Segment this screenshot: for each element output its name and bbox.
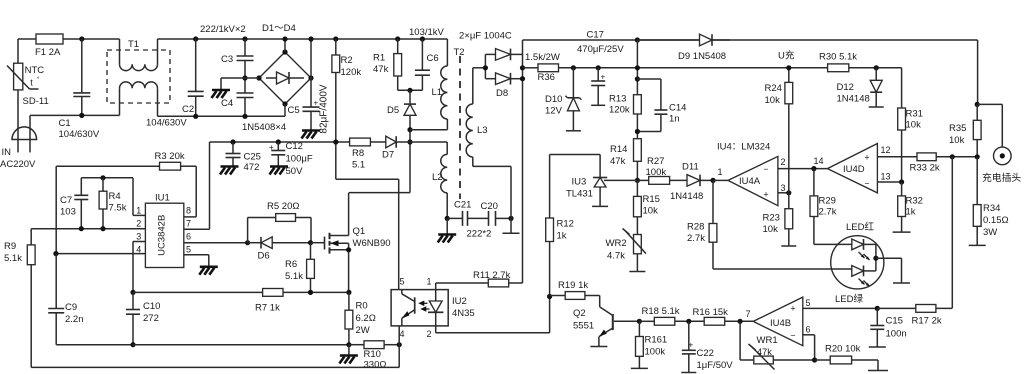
wire bottom rail after T1 — [158, 115, 286, 117]
resistor R7 1k — [255, 289, 283, 314]
wire ground bus — [133, 344, 349, 346]
node C6 top — [420, 36, 425, 41]
svg-text:WR1: WR1 — [757, 335, 778, 346]
svg-text:R29: R29 — [819, 196, 836, 207]
terminal bar C20 node — [503, 232, 520, 234]
svg-text:2.7k: 2.7k — [687, 233, 705, 244]
svg-text:R34: R34 — [983, 203, 1000, 214]
resistor R30 5.1k — [819, 52, 902, 72]
node C20 right — [508, 166, 513, 233]
svg-text:−: − — [865, 179, 870, 189]
svg-text:1k: 1k — [557, 231, 567, 242]
terminal bar R32 — [893, 231, 911, 233]
svg-text:+: + — [689, 341, 694, 350]
node R2 aux rail junction — [333, 139, 338, 144]
charge plug socket — [982, 147, 1021, 184]
resistor R20 10k — [815, 344, 878, 371]
resistor R19 1k — [550, 280, 600, 299]
node top rail plug branch — [975, 102, 980, 107]
node output R36 tap — [520, 65, 525, 70]
wire IU4B pin6 — [803, 335, 815, 360]
diode D8 — [485, 73, 522, 99]
svg-text:C2: C2 — [182, 104, 194, 115]
svg-text:R27: R27 — [647, 156, 664, 167]
node R35 bottom — [975, 154, 980, 159]
capacitor C17 470uF/25V — [577, 30, 624, 106]
svg-text:7: 7 — [746, 309, 751, 319]
svg-text:14: 14 — [814, 156, 824, 166]
svg-text:R30 5.1k: R30 5.1k — [819, 52, 857, 63]
wire U-charge rail — [559, 67, 828, 69]
MOSFET Q1 W6NB90 — [325, 193, 391, 293]
svg-text:5: 5 — [806, 298, 811, 308]
resistor R35 10k — [949, 104, 981, 156]
svg-text:103: 103 — [60, 207, 76, 218]
node R1 top — [395, 36, 400, 41]
resistor R8 5.1 — [350, 138, 386, 170]
wire IU4A noninverting pin3 — [778, 192, 789, 194]
resistor R11 2.7k — [436, 270, 523, 290]
svg-text:C15: C15 — [886, 316, 903, 327]
svg-text:L3: L3 — [477, 125, 488, 136]
svg-text:IU4A: IU4A — [739, 176, 761, 187]
svg-text:2×μF 1004C: 2×μF 1004C — [459, 31, 512, 42]
svg-text:R35: R35 — [949, 123, 966, 134]
capacitor C4 — [221, 78, 254, 116]
svg-text:120k: 120k — [609, 105, 630, 116]
svg-text:6: 6 — [186, 232, 191, 242]
svg-text:5551: 5551 — [573, 321, 594, 332]
svg-text:WR2: WR2 — [606, 238, 627, 249]
wire source bus — [133, 291, 349, 293]
wire output rail vertical — [522, 40, 524, 283]
plug IN AC220V — [0, 115, 37, 170]
svg-text:1.5k/2W: 1.5k/2W — [525, 52, 560, 63]
resistor R5 20ohm — [248, 201, 311, 243]
svg-text:3: 3 — [136, 232, 141, 242]
svg-text:10k: 10k — [949, 135, 965, 146]
svg-text:R7 1k: R7 1k — [255, 303, 280, 314]
op-amp IU4A — [713, 142, 786, 206]
svg-text:222/1kV×2: 222/1kV×2 — [200, 24, 246, 35]
svg-text:+: + — [269, 143, 274, 152]
resistor R16 15k — [693, 307, 754, 325]
svg-text:C17: C17 — [587, 30, 604, 41]
svg-text:UC3842B: UC3842B — [157, 215, 168, 256]
wire pin2 FB — [31, 229, 145, 245]
svg-text:R6: R6 — [285, 259, 297, 270]
svg-text:L2: L2 — [432, 172, 443, 183]
node bridge bottom — [282, 101, 287, 116]
svg-text:R19 1k: R19 1k — [558, 280, 588, 291]
wire gate — [311, 242, 325, 244]
svg-text:+: + — [601, 73, 606, 82]
svg-text:D7: D7 — [382, 150, 394, 161]
svg-text:R24: R24 — [765, 83, 782, 94]
wire D8 anode join — [484, 54, 486, 78]
node C2 top — [193, 36, 198, 41]
label 2x uF 1004C — [459, 31, 512, 42]
capacitor C7 103 — [60, 195, 88, 229]
terminal bar R23 — [781, 245, 796, 247]
svg-text:104/630V: 104/630V — [59, 129, 100, 140]
node R10 right — [397, 342, 402, 347]
node IU4A output — [710, 178, 715, 183]
svg-text:充电插头: 充电插头 — [982, 171, 1021, 184]
svg-text:T2: T2 — [454, 47, 465, 58]
wire pin6 gate drive — [184, 242, 248, 244]
svg-text:C21: C21 — [454, 200, 471, 211]
terminal bar C22 — [681, 372, 696, 374]
svg-text:F1 2A: F1 2A — [35, 47, 61, 58]
fuse F1 2A — [35, 34, 63, 58]
resistor R161 100k — [636, 321, 668, 368]
node IU4B pin7 — [738, 319, 743, 360]
capacitor C1 104/630V — [59, 39, 100, 140]
resistor R15 10k — [634, 180, 660, 234]
svg-text:LED绿: LED绿 — [835, 293, 863, 305]
capacitor C2 104/630V — [146, 39, 204, 129]
op-amp IU4D — [814, 144, 891, 193]
node C5 rail — [308, 36, 313, 41]
svg-text:R28: R28 — [687, 222, 704, 233]
svg-text:472: 472 — [244, 162, 260, 173]
op-amp IU4B — [746, 297, 811, 346]
node R6 bottom — [308, 290, 313, 295]
capacitor C14 1n — [637, 79, 686, 132]
svg-text:D8: D8 — [496, 88, 508, 99]
svg-text:D9 1N5408: D9 1N5408 — [678, 51, 726, 62]
wire IU4D pin12 — [877, 156, 917, 158]
wire pin1 comp — [133, 178, 145, 216]
svg-text:7.5k: 7.5k — [109, 203, 127, 214]
node secondary rail C17 — [635, 37, 640, 42]
wire R2 to opto collector — [336, 179, 399, 289]
svg-text:R18 5.1k: R18 5.1k — [642, 306, 680, 317]
diode D9 1N5408 — [637, 34, 730, 62]
capacitor C20 — [467, 201, 512, 240]
inductor L2 aux winding — [410, 142, 447, 218]
svg-text:1: 1 — [136, 206, 141, 216]
wire pin5 ground — [184, 255, 209, 266]
wire plug branch — [977, 104, 1002, 147]
svg-text:330Ω: 330Ω — [364, 360, 387, 371]
wire mid divider to ground — [221, 78, 245, 90]
svg-text:6: 6 — [806, 325, 811, 335]
wire IU4B pin5 — [803, 307, 878, 309]
svg-text:C6: C6 — [427, 53, 439, 64]
svg-text:100k: 100k — [645, 347, 666, 358]
node C12 top — [276, 139, 281, 144]
terminal bar C17 — [591, 104, 605, 106]
svg-text:1N5408×4: 1N5408×4 — [242, 122, 286, 133]
svg-text:1N4148: 1N4148 — [670, 191, 703, 202]
svg-text:5.1k: 5.1k — [285, 271, 303, 282]
svg-text:R32: R32 — [906, 196, 923, 207]
node WR1 R20 junction — [812, 357, 817, 362]
svg-text:C12: C12 — [286, 141, 303, 152]
wire pin4 RtCt — [56, 253, 145, 255]
node U-charge — [778, 50, 795, 71]
svg-text:R161: R161 — [645, 335, 668, 346]
node pin13 junction — [899, 179, 904, 184]
svg-text:IU1: IU1 — [155, 193, 170, 204]
wire NTC to plug — [17, 90, 19, 152]
potentiometer WR2 4.7k — [606, 229, 647, 272]
node C4 bottom — [242, 114, 247, 119]
svg-text:D5: D5 — [387, 105, 399, 116]
node bridge left — [245, 75, 262, 80]
svg-text:2: 2 — [136, 219, 141, 229]
svg-text:272: 272 — [143, 313, 159, 324]
svg-text:IU3: IU3 — [572, 177, 587, 188]
node C3 top — [242, 36, 247, 41]
svg-text:R15: R15 — [643, 194, 660, 205]
svg-text:C25: C25 — [244, 152, 261, 163]
node C1 top — [79, 36, 84, 41]
diode D11 1N4148 — [670, 162, 713, 203]
svg-text:R2: R2 — [341, 55, 353, 66]
node C3 C4 mid — [242, 75, 247, 80]
svg-text:1n: 1n — [669, 114, 680, 125]
svg-text:12V: 12V — [545, 106, 563, 117]
svg-text:1: 1 — [718, 167, 723, 177]
node bridge top rail — [282, 36, 287, 41]
svg-text:C20: C20 — [481, 201, 498, 212]
label D1~D4 — [262, 23, 296, 34]
svg-text:R13: R13 — [609, 94, 626, 105]
svg-text:C5: C5 — [288, 105, 300, 116]
svg-text:R31: R31 — [906, 109, 923, 120]
svg-text:5: 5 — [400, 277, 405, 287]
svg-text:5: 5 — [186, 245, 191, 255]
node R12 bottom — [547, 294, 552, 299]
terminal bar LED — [893, 282, 910, 284]
svg-text:13: 13 — [881, 172, 891, 182]
svg-text:C7: C7 — [60, 195, 72, 206]
svg-text:IU4：LM324: IU4：LM324 — [717, 142, 770, 153]
svg-text:10k: 10k — [765, 95, 781, 106]
svg-text:R8: R8 — [352, 148, 364, 159]
diode D5 — [387, 90, 416, 129]
node bridge right — [308, 75, 313, 80]
svg-text:NTC: NTC — [25, 65, 45, 76]
svg-text:3: 3 — [781, 183, 786, 193]
svg-text:D10: D10 — [545, 94, 562, 105]
diode D6 — [248, 237, 311, 262]
svg-text:120k: 120k — [341, 67, 362, 78]
resistor R27 100k — [637, 156, 687, 184]
svg-text:°: ° — [37, 76, 40, 84]
wire top rail secondary — [523, 40, 978, 104]
svg-text:C3: C3 — [221, 54, 233, 65]
capacitor C22 1uF/50V — [682, 321, 733, 372]
node divider U-charge — [635, 65, 640, 70]
svg-text:47k: 47k — [373, 64, 389, 75]
resistor R31 10k — [898, 68, 923, 182]
svg-text:L1: L1 — [432, 87, 443, 98]
node R33 R17 tap — [950, 154, 955, 159]
resistor R36 1.5k/2W — [523, 52, 560, 83]
node L2 bottom ground — [445, 216, 450, 234]
svg-text:C1: C1 — [59, 118, 71, 129]
wire bottom return rail — [31, 326, 399, 368]
bridge rectifier D1-D4 1N5408x4 — [242, 52, 311, 133]
resistor R13 120k — [609, 94, 641, 139]
terminal bar D12 — [869, 106, 884, 108]
svg-text:Q1: Q1 — [353, 226, 366, 237]
svg-text:D1～D4: D1～D4 — [262, 23, 296, 34]
wire opto pin2 feedback — [436, 297, 550, 333]
resistor R18 5.1k — [639, 306, 704, 325]
inductor L1 primary winding — [410, 39, 447, 130]
ground IU1 pin5 — [199, 267, 218, 275]
svg-text:D12: D12 — [837, 82, 854, 93]
svg-text:−: − — [764, 164, 769, 174]
zener diode D10 12V — [545, 68, 581, 131]
svg-text:4.7k: 4.7k — [607, 251, 625, 262]
node L2 top aux — [407, 139, 412, 144]
wire pin8 Vref — [184, 216, 196, 218]
svg-text:6.2Ω: 6.2Ω — [356, 313, 376, 324]
node C15 top — [875, 306, 880, 311]
transformer T1 common-mode choke — [107, 39, 170, 116]
node bridge top — [282, 39, 287, 55]
ground C5 — [302, 131, 321, 139]
svg-text:R11 2.7k: R11 2.7k — [473, 270, 511, 281]
svg-text:C14: C14 — [669, 103, 686, 114]
svg-text:222*2: 222*2 — [467, 229, 492, 240]
svg-text:TL431: TL431 — [566, 189, 593, 200]
potentiometer WR1 47k — [740, 335, 815, 370]
wire R1 C6 bottom — [398, 89, 423, 91]
svg-text:100μF: 100μF — [286, 154, 313, 165]
wire bridge right to rail — [310, 39, 312, 78]
node C10 top — [130, 290, 135, 295]
svg-text:7: 7 — [186, 219, 191, 229]
resistor R6 5.1k — [285, 243, 314, 293]
svg-text:C9: C9 — [65, 302, 77, 313]
terminal bar R34 — [969, 244, 986, 246]
thermistor NTC SD-11 — [7, 63, 49, 107]
capacitor C21 — [447, 200, 488, 226]
node D8 cathode — [520, 76, 525, 81]
node C1 bottom — [79, 113, 84, 118]
svg-text:Q2: Q2 — [573, 308, 586, 319]
svg-text:104/630V: 104/630V — [146, 118, 187, 129]
resistor R14 47k — [610, 139, 641, 181]
node R4 bottom — [100, 226, 105, 231]
node R2 top — [333, 36, 338, 41]
node D6 R5 left — [245, 240, 250, 245]
wire pin3 current sense — [133, 242, 145, 293]
svg-text:IU2: IU2 — [452, 296, 467, 307]
svg-text:1k: 1k — [906, 207, 916, 218]
resistor R34 0.15ohm 3W — [973, 157, 1008, 246]
resistor R0 6.2ohm 2W — [345, 292, 376, 344]
capacitor C9 2.2n — [48, 254, 133, 345]
svg-text:2W: 2W — [356, 325, 370, 336]
terminal bar TL431 anode — [592, 205, 608, 207]
node R4 top — [100, 175, 105, 180]
wire fuse to T1 — [63, 38, 120, 40]
capacitor C15 100n — [870, 308, 906, 347]
svg-text:IU4D: IU4D — [843, 164, 865, 175]
wire IU4D pin13 — [877, 181, 901, 183]
svg-text:4N35: 4N35 — [452, 308, 475, 319]
svg-text:C4: C4 — [221, 98, 233, 109]
label 103/1kV — [409, 27, 445, 38]
node C7 bottom — [79, 226, 84, 231]
capacitor C12 100uF 50V — [269, 141, 313, 177]
resistor R23 10k — [763, 193, 793, 246]
node Q2 base — [637, 319, 642, 324]
svg-text:12: 12 — [881, 145, 891, 155]
svg-text:LED红: LED红 — [846, 221, 874, 233]
svg-text:470μF/25V: 470μF/25V — [577, 44, 624, 55]
capacitor C10 272 — [126, 292, 160, 344]
svg-text:10k: 10k — [643, 206, 659, 217]
resistor R1 47k — [373, 39, 402, 90]
svg-text:103/1kV: 103/1kV — [409, 27, 445, 38]
svg-text:C10: C10 — [143, 301, 160, 312]
svg-text:R4: R4 — [109, 191, 121, 202]
node C2 bottom — [193, 114, 198, 119]
svg-text:+: + — [763, 190, 768, 200]
svg-text:R3 20k: R3 20k — [155, 151, 185, 162]
svg-text:3W: 3W — [983, 227, 997, 238]
svg-text:R20 10k: R20 10k — [825, 344, 861, 355]
capacitor C25 472 — [226, 142, 261, 173]
svg-text:R14: R14 — [610, 144, 627, 155]
svg-text:47k: 47k — [757, 347, 772, 357]
terminal bar WR2 — [629, 271, 645, 273]
svg-text:R17 2k: R17 2k — [912, 316, 942, 327]
IC IU1 UC3842B — [136, 193, 191, 268]
LED green — [835, 258, 876, 305]
node LED common — [873, 256, 901, 283]
svg-text:10k: 10k — [763, 224, 779, 235]
resistor R33 2k — [910, 153, 978, 174]
terminal bar Q2 emitter — [590, 346, 607, 348]
svg-text:D11: D11 — [682, 162, 699, 173]
node R0 bottom — [346, 342, 351, 355]
rectifier diode D8a — [485, 49, 522, 61]
svg-text:1μF/50V: 1μF/50V — [697, 360, 734, 371]
svg-text:R9: R9 — [4, 241, 16, 252]
svg-text:+: + — [864, 153, 869, 163]
resistor R2 120k — [332, 39, 361, 179]
svg-text:T1: T1 — [128, 39, 139, 50]
svg-text:SD-11: SD-11 — [23, 96, 49, 107]
node L1 bottom — [407, 127, 412, 132]
svg-text:100n: 100n — [886, 329, 907, 340]
svg-text:R5 20Ω: R5 20Ω — [267, 201, 299, 212]
svg-text:2: 2 — [781, 157, 786, 167]
svg-text:100k: 100k — [646, 167, 667, 178]
wire bottom rail left — [30, 114, 120, 116]
node pin3 junction — [786, 190, 791, 195]
svg-text:R16 15k: R16 15k — [693, 307, 729, 318]
wire AC live input vertical — [17, 39, 19, 63]
ground C12 — [270, 167, 289, 175]
node D10 top — [571, 65, 576, 70]
node C14 bottom branch — [635, 129, 640, 134]
wire R17 feedback vertical — [951, 157, 953, 308]
svg-text:R36: R36 — [538, 72, 555, 83]
resistor R28 2.7k — [687, 180, 852, 269]
svg-text:R23: R23 — [763, 213, 780, 224]
